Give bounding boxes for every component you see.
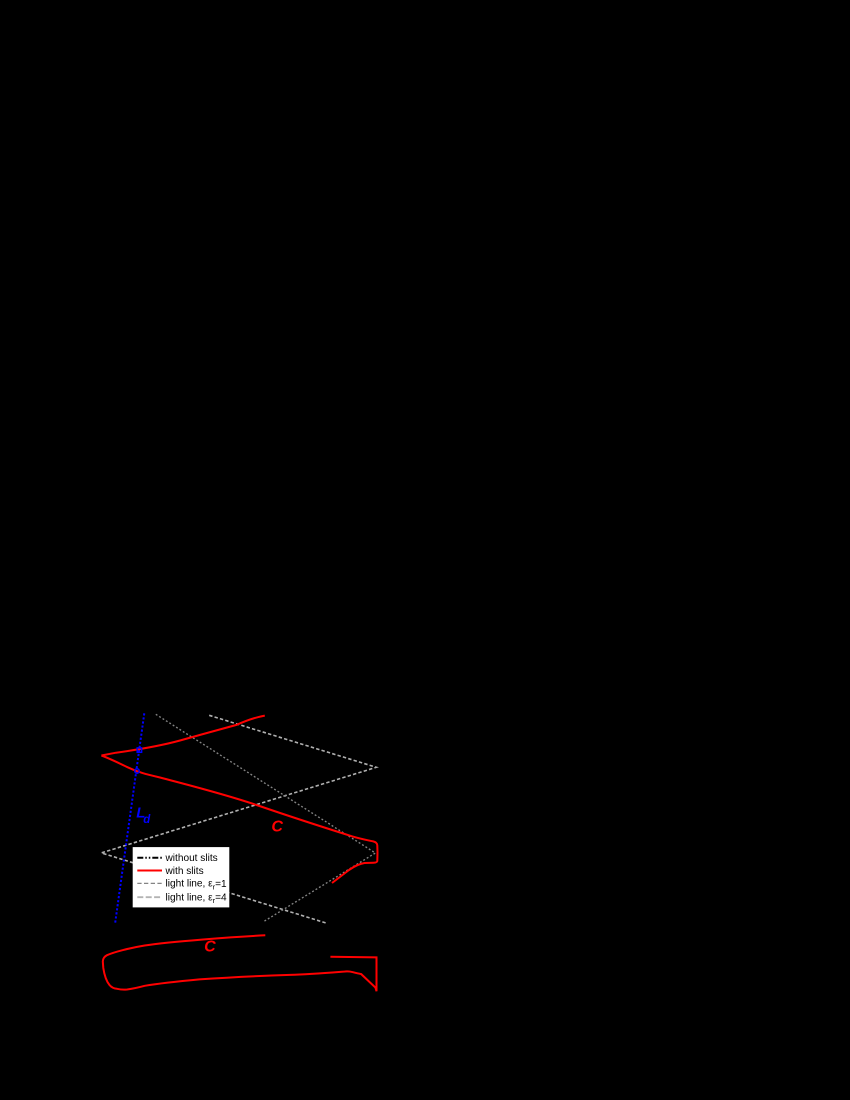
light line eps_r=1 (dark gray short-dash zigzag) [156,714,376,922]
legend line: without slits (black dash-dot-dot) [137,857,162,859]
label L_d [136,804,145,821]
red band C upper branch (with slits) [101,716,264,756]
svg-text:light line, εr=1: light line, εr=1 [166,879,228,892]
blue circle marker [135,769,140,774]
legend text: light line eps_r=1 [166,879,228,892]
red band C bottom panel outline [103,935,377,991]
legend text: light line eps_r=4 [166,893,228,906]
svg-text:without slits: without slits [165,853,218,864]
label C (bottom band) [204,939,216,956]
red band C lower branch with right notch (with slits) [101,756,377,884]
legend line: light line eps_r=4 [137,896,162,898]
svg-text:d: d [143,814,151,826]
svg-text:C: C [204,939,216,956]
blue dotted line L_d [115,713,144,924]
legend line: with slits (red solid) [137,870,162,872]
svg-text:light line, εr=4: light line, εr=4 [166,893,228,906]
label C (upper band) [271,818,283,835]
light line eps_r=4 (light gray dashed zigzag) [101,715,376,923]
legend box [133,847,230,907]
svg-text:with slits: with slits [165,866,204,877]
legend line: light line eps_r=1 [137,882,162,884]
legend text: with slits [165,866,204,877]
svg-text:C: C [271,818,283,835]
legend text: without slits [165,853,218,864]
blue square marker [137,748,141,752]
